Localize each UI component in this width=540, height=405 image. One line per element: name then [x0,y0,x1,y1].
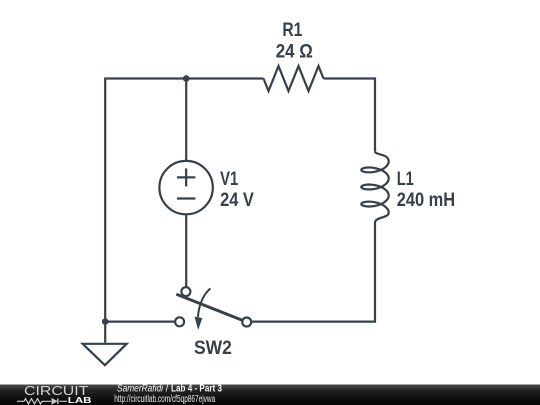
switch blade [177,295,242,321]
wire bottom-left to switch left terminal [105,321,174,323]
svg-text:R1: R1 [282,20,302,41]
V1 plus sign [177,168,196,186]
wire left vertical + top horizontal to resistor [105,79,263,322]
node junction dot bottom-left [102,318,109,325]
svg-text:L1: L1 [397,169,414,190]
switch left terminal [175,317,184,326]
svg-text:LAB: LAB [68,396,92,405]
V1 circle body [159,161,212,214]
node junction dot top [183,75,190,82]
logo schematic line: resistor + diode [17,398,67,404]
voltage source V1 [159,161,212,214]
svg-text:24 V: 24 V [220,190,254,211]
svg-text:V1: V1 [220,169,238,190]
V1 minus sign [177,197,196,199]
wire V1 top lead [185,79,187,162]
svg-text:240 mH: 240 mH [397,190,456,211]
wire resistor to top-right corner down to inductor [324,79,376,152]
resistor R1 [264,66,324,91]
logo diode triangle [52,398,58,405]
svg-text:24 Ω: 24 Ω [276,41,313,62]
switch toggle arrow arc [198,288,211,317]
switch right terminal [242,318,251,327]
ground [83,344,127,365]
inductor L1 [361,151,388,222]
svg-text:SW2: SW2 [194,338,232,359]
wire V1 bottom lead to switch [185,214,187,286]
switch SW2 [175,287,251,330]
switch toggle arrowhead [195,317,203,330]
svg-text:http://circuitlab.com/cf5qp867: http://circuitlab.com/cf5qp867ejvwa [114,394,215,405]
ground stem [104,322,106,343]
switch top terminal [181,287,190,296]
wire inductor to bottom-right corner to switch right terminal [252,223,375,322]
